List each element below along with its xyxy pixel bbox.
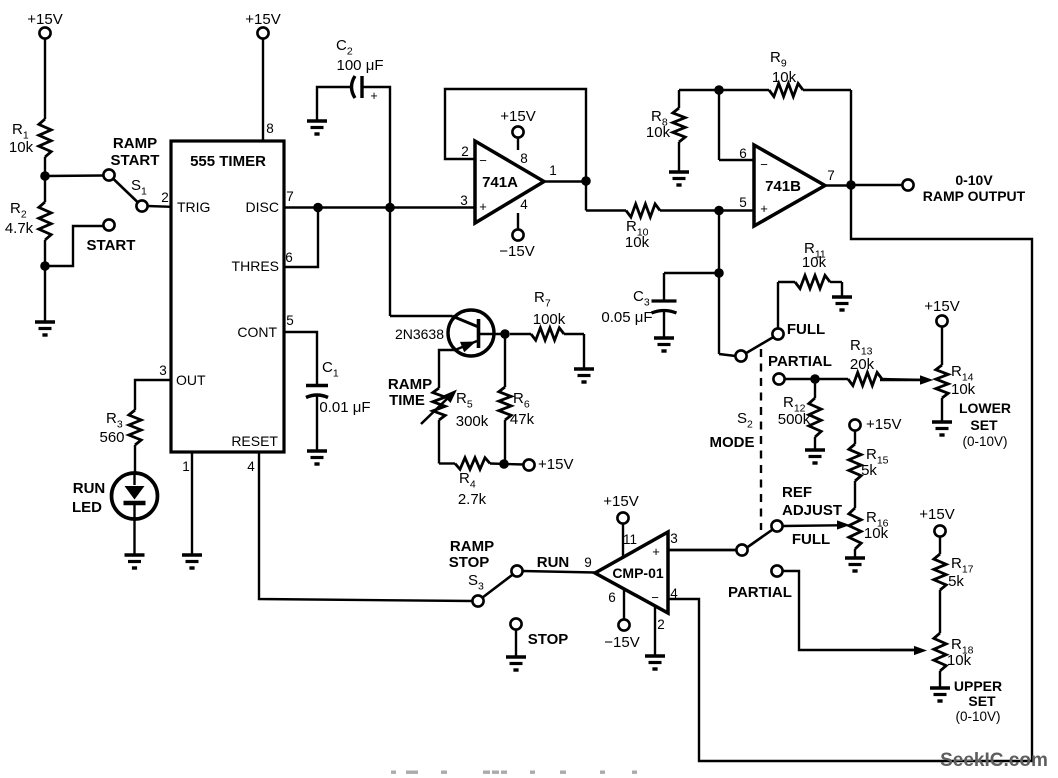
svg-text:+15V: +15V bbox=[924, 298, 959, 315]
svg-text:3: 3 bbox=[670, 531, 678, 546]
svg-text:+: + bbox=[760, 201, 768, 216]
svg-text:FULL: FULL bbox=[792, 531, 830, 548]
svg-text:5k: 5k bbox=[861, 462, 877, 479]
svg-text:2: 2 bbox=[461, 144, 469, 159]
svg-text:−: − bbox=[651, 590, 659, 605]
svg-text:10k: 10k bbox=[646, 124, 671, 141]
svg-text:RAMP OUTPUT: RAMP OUTPUT bbox=[923, 188, 1026, 204]
svg-text:CMP-01: CMP-01 bbox=[612, 565, 664, 581]
svg-text:RESET: RESET bbox=[231, 433, 278, 449]
svg-text:10k: 10k bbox=[625, 234, 650, 251]
svg-text:5: 5 bbox=[286, 313, 294, 328]
svg-text:−: − bbox=[760, 157, 768, 172]
svg-text:+15V: +15V bbox=[603, 493, 638, 510]
svg-text:(0-10V): (0-10V) bbox=[962, 434, 1007, 449]
svg-text:DISC: DISC bbox=[246, 199, 279, 215]
svg-text:10k: 10k bbox=[772, 69, 797, 86]
svg-text:4: 4 bbox=[520, 197, 528, 212]
svg-text:OUT: OUT bbox=[176, 372, 206, 388]
svg-text:8: 8 bbox=[266, 121, 274, 136]
svg-text:7: 7 bbox=[827, 168, 835, 183]
svg-text:STOP: STOP bbox=[449, 554, 490, 571]
svg-text:MODE: MODE bbox=[710, 434, 755, 451]
svg-text:555 TIMER: 555 TIMER bbox=[190, 153, 266, 170]
svg-text:6: 6 bbox=[285, 250, 293, 265]
svg-text:RAMP: RAMP bbox=[113, 135, 157, 152]
svg-text:1: 1 bbox=[549, 163, 557, 178]
svg-text:+: + bbox=[370, 89, 377, 103]
svg-text:+15V: +15V bbox=[27, 11, 62, 28]
svg-text:CONT: CONT bbox=[237, 324, 277, 340]
svg-text:10k: 10k bbox=[864, 525, 889, 542]
svg-text:5: 5 bbox=[739, 195, 747, 210]
svg-text:RAMP: RAMP bbox=[388, 376, 432, 393]
svg-text:4.7k: 4.7k bbox=[5, 220, 34, 237]
svg-text:560: 560 bbox=[99, 429, 124, 446]
svg-text:+15V: +15V bbox=[500, 108, 535, 125]
svg-text:11: 11 bbox=[623, 532, 637, 547]
svg-text:0-10V: 0-10V bbox=[955, 172, 993, 188]
svg-text:LOWER: LOWER bbox=[959, 400, 1011, 416]
svg-text:10k: 10k bbox=[947, 652, 972, 669]
svg-text:ADJUST: ADJUST bbox=[782, 502, 842, 519]
svg-text:6: 6 bbox=[739, 146, 747, 161]
svg-text:2N3638: 2N3638 bbox=[395, 326, 444, 342]
svg-text:20k: 20k bbox=[850, 356, 875, 373]
svg-text:SET: SET bbox=[968, 693, 996, 709]
svg-text:RAMP: RAMP bbox=[450, 538, 494, 555]
svg-text:+15V: +15V bbox=[866, 416, 901, 433]
svg-text:−15V: −15V bbox=[604, 634, 639, 651]
svg-text:+15V: +15V bbox=[538, 456, 573, 473]
svg-text:START: START bbox=[87, 237, 136, 254]
svg-text:FULL: FULL bbox=[787, 321, 825, 338]
svg-text:6: 6 bbox=[608, 590, 616, 605]
svg-text:9: 9 bbox=[584, 555, 592, 570]
svg-text:2.7k: 2.7k bbox=[458, 491, 487, 508]
svg-text:2: 2 bbox=[161, 190, 169, 205]
svg-text:PARTIAL: PARTIAL bbox=[728, 584, 792, 601]
svg-text:7: 7 bbox=[286, 189, 294, 204]
svg-text:+15V: +15V bbox=[245, 11, 280, 28]
svg-text:10k: 10k bbox=[951, 381, 976, 398]
svg-text:LED: LED bbox=[72, 499, 102, 516]
svg-text:5k: 5k bbox=[948, 573, 964, 590]
svg-text:−: − bbox=[479, 153, 487, 168]
svg-text:47k: 47k bbox=[510, 411, 535, 428]
svg-text:0.01 μF: 0.01 μF bbox=[319, 399, 370, 416]
svg-text:+: + bbox=[652, 544, 660, 559]
svg-text:741A: 741A bbox=[482, 174, 518, 191]
svg-text:8: 8 bbox=[520, 151, 528, 166]
svg-text:RUN: RUN bbox=[73, 480, 106, 497]
svg-text:+15V: +15V bbox=[919, 506, 954, 523]
svg-text:2: 2 bbox=[657, 617, 665, 632]
svg-text:10k: 10k bbox=[802, 254, 827, 271]
svg-text:UPPER: UPPER bbox=[954, 678, 1002, 694]
svg-text:500k: 500k bbox=[778, 411, 811, 428]
svg-text:3: 3 bbox=[460, 193, 468, 208]
svg-text:4: 4 bbox=[247, 459, 255, 474]
svg-text:100 μF: 100 μF bbox=[337, 57, 384, 74]
svg-text:10k: 10k bbox=[9, 139, 34, 156]
svg-text:SeekIC.com: SeekIC.com bbox=[940, 750, 1048, 771]
svg-text:SET: SET bbox=[970, 417, 998, 433]
svg-text:REF: REF bbox=[782, 484, 812, 501]
svg-text:0.05 μF: 0.05 μF bbox=[601, 309, 652, 326]
svg-text:START: START bbox=[111, 152, 160, 169]
svg-text:741B: 741B bbox=[765, 178, 801, 195]
svg-text:PARTIAL: PARTIAL bbox=[768, 353, 832, 370]
svg-text:TRIG: TRIG bbox=[177, 199, 210, 215]
svg-text:(0-10V): (0-10V) bbox=[955, 709, 1000, 724]
svg-text:RUN: RUN bbox=[537, 554, 570, 571]
svg-text:−15V: −15V bbox=[499, 243, 534, 260]
svg-text:TIME: TIME bbox=[389, 392, 425, 409]
svg-text:100k: 100k bbox=[533, 311, 566, 328]
svg-text:+: + bbox=[479, 199, 487, 214]
svg-text:STOP: STOP bbox=[528, 631, 569, 648]
svg-text:4: 4 bbox=[670, 586, 678, 601]
svg-text:300k: 300k bbox=[456, 413, 489, 430]
svg-text:1: 1 bbox=[182, 459, 190, 474]
svg-text:THRES: THRES bbox=[232, 258, 279, 274]
svg-text:3: 3 bbox=[159, 363, 167, 378]
